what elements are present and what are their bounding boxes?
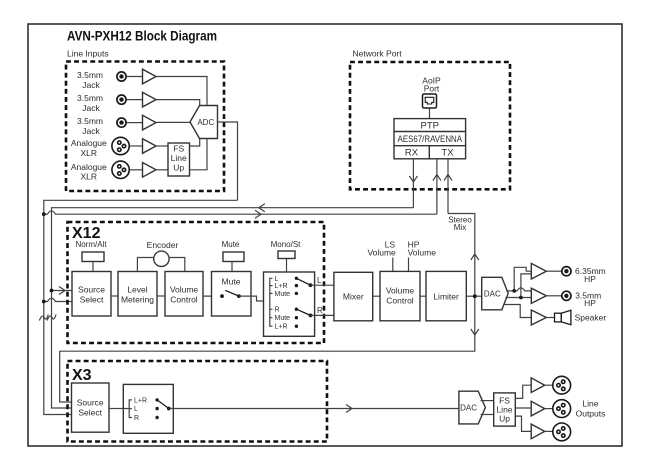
node DAC R junction [519,296,523,300]
wire FS out1 to ADC bottom [190,139,200,147]
wire bus A line-input audio: down left edge to X12 and X3 [44,200,238,414]
connector J2 3.5mm jack [117,95,126,104]
node Mono/St input junction [268,299,272,303]
wire FS to line amp 3 [515,416,531,431]
amplifier HP1 [531,263,546,279]
svg-text:Jack: Jack [82,80,100,90]
svg-text:RX: RX [405,148,419,159]
wire L output to mixer [311,284,334,286]
svg-text:Mute: Mute [222,240,240,249]
node DAC L junction [512,289,516,293]
label Line Outputs [576,399,606,419]
wire encoder to Level Metering [137,258,153,272]
wire Mono/St button to switch box [286,259,288,273]
wire J1 to amp [126,76,142,78]
wire SS to Level Metering [111,295,118,297]
svg-text:L+R: L+R [275,283,288,290]
svg-text:Outputs: Outputs [576,409,606,419]
arrow RX down [409,176,417,182]
amplifier A1 [143,69,157,84]
svg-text:Control: Control [170,294,198,304]
wire VC to limiter [420,295,426,297]
bracket contacts left [270,278,273,326]
FS Line Up box U1 [168,143,190,176]
wire DAC L out [506,267,531,291]
wire R output to mixer [311,314,334,316]
svg-text:3.5mm: 3.5mm [77,116,103,126]
switch SW3 R selector [296,309,312,317]
X3 dashed group box [68,361,328,442]
wire X3 SS to selector [109,408,123,410]
node stereo mix junction [473,294,477,298]
svg-text:Volume: Volume [367,247,396,257]
Norm/Alt button box [82,252,104,262]
svg-text:Mixer: Mixer [343,292,364,302]
amplifier A2 [143,92,157,107]
label 3.5mm Jack 1 [77,70,103,90]
wire RX output down [412,159,414,208]
connector XLR output 3 [553,423,571,441]
break symbol on bus A vertical [39,315,48,321]
svg-text:Select: Select [80,294,104,304]
node bus B tap junction [50,289,54,293]
wire RJ45 to PTP [429,108,431,119]
wire DAC to FS upper [481,400,494,402]
wire DAC R out [506,274,532,298]
wire bus C line-input audio to TX (hop over bus B vertical) [44,211,437,214]
svg-text:DAC: DAC [484,289,501,298]
switch SW1 mute [220,290,241,298]
svg-text:Source: Source [78,284,105,294]
svg-text:XLR: XLR [81,148,98,158]
Limiter box [426,271,466,320]
label 3.5mm HP [575,291,601,309]
wire Norm/Alt to Source Select [92,262,94,272]
svg-text:Up: Up [173,163,184,173]
wire HP volume stem [408,258,410,272]
svg-text:Volume: Volume [408,247,437,257]
svg-text:L: L [134,406,138,413]
connector XLR output 2 [553,400,571,418]
wire X12 input tap from bus B [52,290,73,292]
wire XLR1 to amp [129,145,142,147]
label HP Volume [408,240,437,258]
label AoIP Port [422,76,441,94]
connector XLR input 1 [112,137,129,154]
Source Select box X3 [72,383,110,432]
wire LO1 to XLR [545,384,553,386]
Level Metering box [118,272,157,317]
svg-text:TX: TX [441,148,454,159]
arrow stereo mix up [471,254,479,260]
wire SPK amp to speaker [546,317,554,319]
svg-text:R: R [317,306,323,315]
arrow bus B left [259,204,265,212]
wire stereo mix bus: from TX2 down to X3 [60,214,475,403]
wire A2 to ADC corner [156,100,200,106]
wire limiter to DAC [466,295,481,297]
label 3.5mm Jack 3 [77,116,103,136]
wire J3 to amp [126,122,142,124]
svg-text:Analogue: Analogue [71,138,107,148]
wire A3 to ADC point [156,121,191,123]
switch SW2 L selector [296,278,312,287]
amplifier LO2 [531,401,545,416]
wire mixer to volume control [373,295,380,297]
amplifier A3 [143,115,157,130]
svg-text:Port: Port [424,83,440,93]
X12 dashed group box [68,222,325,343]
wire DAC speaker tap [504,305,532,318]
connector 3.5mm jack output [562,291,571,300]
wire A5 to FS [156,169,168,171]
svg-text:Line Inputs: Line Inputs [67,49,109,59]
amplifier SPK [531,310,546,325]
svg-text:ADC: ADC [197,118,214,127]
connector J3 3.5mm jack [117,118,126,127]
svg-text:X3: X3 [72,367,92,384]
wire LM to Volume Control [157,295,165,297]
amplifier A5 [143,163,157,178]
wire LO2 to XLR [545,408,553,410]
svg-text:Jack: Jack [82,103,100,113]
svg-text:R: R [275,307,280,314]
connector 6.35mm jack output [562,267,571,276]
wire encoder to Volume Control [169,258,185,272]
arrow TX1 up [433,175,441,181]
svg-text:Volume: Volume [170,284,199,294]
svg-text:HP: HP [584,274,596,284]
node X3 contact dots [155,398,158,419]
label LS Volume [367,240,396,258]
speaker icon [555,310,571,325]
svg-text:Select: Select [78,407,102,417]
wire HP2 to jack [546,295,561,297]
DAC U4 [482,277,509,310]
Mixer box [334,272,373,321]
svg-text:Mute: Mute [222,277,241,287]
svg-text:3.5mm: 3.5mm [77,70,103,80]
wire TX input 2 up [447,159,449,214]
wire J2 to amp [126,99,142,101]
connector J1 3.5mm jack [117,72,126,81]
svg-text:DAC: DAC [460,403,477,412]
arrow X3 out right [346,405,352,413]
svg-text:R: R [134,415,139,422]
node bus A tap junction [42,300,46,304]
svg-text:L+R: L+R [275,324,288,331]
wire HP1 to jack [546,270,561,272]
svg-text:Mute: Mute [275,291,291,298]
FS Line Up box U6 [494,393,516,426]
Volume Control box main [380,271,420,320]
wire ADC output down to bus A [218,122,238,200]
switch SW4 X3 selector [157,400,171,411]
svg-text:Network Port: Network Port [353,48,403,58]
node contact dots column [295,277,298,328]
Source Select box X12 [72,272,111,317]
wire A1 to ADC top [156,77,207,106]
svg-text:L: L [317,276,322,285]
svg-text:Analogue: Analogue [71,162,107,172]
wire FS to line amp 1 [515,385,531,398]
svg-text:Encoder: Encoder [147,240,179,250]
svg-text:FS: FS [173,144,184,154]
label Stereo Mix [448,215,472,232]
svg-text:3.5mm: 3.5mm [77,93,103,103]
svg-text:Limiter: Limiter [433,292,459,302]
svg-text:Mix: Mix [454,223,466,232]
svg-text:Mono/St: Mono/St [271,240,302,249]
amplifier LO3 [531,424,545,439]
wire bus B network RX audio: left and down to X12 and X3 [52,208,414,408]
svg-text:L+R: L+R [134,398,147,405]
amplifier LO1 [531,378,545,393]
label 3.5mm Jack 2 [77,93,103,113]
wire Mute button to Mute box [231,262,233,272]
connector XLR output 1 [553,376,571,394]
X3 selector box [123,384,173,433]
svg-text:Control: Control [386,296,414,306]
node bus A to bus C junction [42,212,46,216]
Mono/St switch box [264,272,315,336]
label Analogue XLR 1 [71,138,107,158]
encoder knob circle [154,251,169,266]
svg-text:Volume: Volume [386,286,415,296]
wire TX input 1 up [436,159,438,214]
svg-text:XLR: XLR [81,172,98,182]
label 6.35mm HP [575,266,606,284]
wire Mute out to Mono/St [239,296,270,301]
Network Port dashed group box [350,62,510,189]
amplifier HP2 [531,288,546,303]
svg-text:Source: Source [77,397,104,407]
wire LS volume stem [392,258,394,272]
svg-text:Metering: Metering [121,294,154,304]
svg-text:Jack: Jack [82,126,100,136]
svg-text:Mute: Mute [275,315,291,322]
arrow TX2 up [444,175,452,181]
svg-text:Line: Line [171,153,187,163]
arrow stereo mix down [471,329,479,335]
break symbol on bus B vertical [47,315,56,321]
svg-text:Norm/Alt: Norm/Alt [75,240,107,249]
connector XLR input 2 [112,161,129,178]
arrow into X12 source select [59,287,65,295]
wire VC to Mute box [203,295,222,297]
PTP / AES67 / RX TX stack U3 [394,119,466,159]
connector J6 RJ45 AoIP port icon [423,94,437,108]
Volume Control box X12 [165,272,203,317]
bracket contacts X3 [123,400,132,418]
label Analogue XLR 2 [71,162,107,182]
amplifier A4 [143,139,157,154]
Mute switch box [212,272,252,317]
wire FS out2 to ADC bottom [190,139,208,170]
svg-text:PTP: PTP [421,120,439,131]
wire XLR2 to amp [129,169,142,171]
svg-text:Up: Up [499,414,510,424]
ADC U2 [190,106,218,139]
wire A4 to FS [156,145,168,147]
svg-text:AES67/RAVENNA: AES67/RAVENNA [398,134,463,145]
wire X12 input tap from bus A (hop over bus B) [44,298,72,301]
svg-text:HP: HP [584,298,596,308]
svg-text:Speaker: Speaker [575,313,607,323]
Mute button box [223,252,244,262]
arrow bus C right [255,210,261,218]
wire X3 out to DAC [169,408,459,410]
svg-text:Level: Level [127,284,147,294]
DAC U5 [459,391,486,424]
svg-text:Line: Line [582,399,598,409]
wire DAC to FS lower [481,414,494,416]
Mono/St button box [278,251,295,259]
Line Inputs dashed group box [66,62,224,192]
wire FS to line amp 2 [515,407,531,409]
wire LO3 to XLR [545,430,553,432]
svg-text:AVN-PXH12 Block Diagram: AVN-PXH12 Block Diagram [67,29,217,44]
svg-text:L: L [275,276,279,283]
